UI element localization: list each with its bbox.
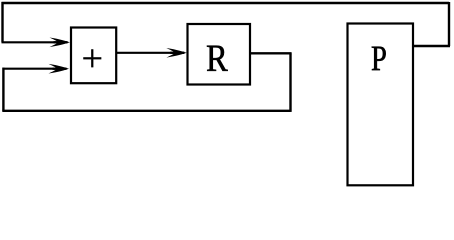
wire: top feedback line from P to left side [2,2,450,4]
arrowhead into summing junction input 2 [49,64,70,74]
block P label [372,47,386,71]
wire: R output line [250,52,292,54]
summing junction + label [83,49,101,67]
arrowhead into R input [166,48,187,58]
wire: summing junction output to R input [116,52,180,54]
wire: second input line into summing junction [3,68,62,70]
summing junction box [71,28,116,84]
wire: upper-left vertical from top line down to first summing input [1,2,3,42]
block R label [207,46,228,71]
wire: first input line into summing junction [2,41,63,43]
wire: right vertical from top line down to P connector [448,2,450,46]
wire: middle vertical from R output down to bottom feedback line [289,53,291,112]
arrowhead into summing junction input 1 [50,38,71,48]
wire: bottom feedback line [2,110,290,112]
block R box [188,24,251,85]
block P box [348,24,414,186]
wire: P output connector from P right edge to right vertical [413,45,451,47]
wire: lower-left vertical from second input down to bottom feedback line [2,68,4,111]
